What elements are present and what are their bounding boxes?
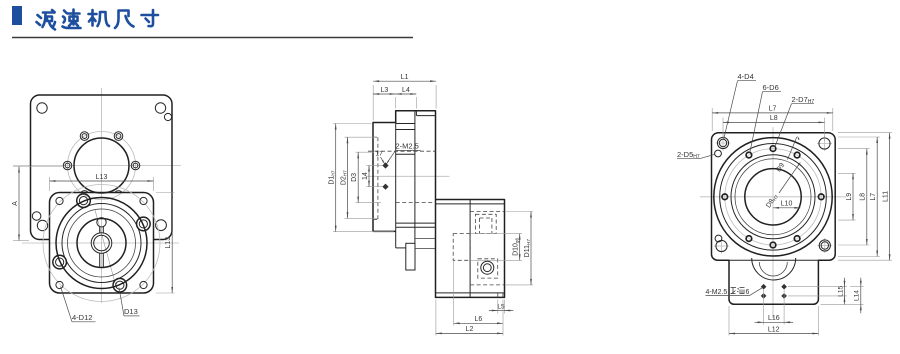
body step line (396, 247, 406, 249)
output housing mid line (469, 200, 471, 298)
M2.5 mounting holes x4 (761, 284, 767, 290)
M2.5 tap mark upper (382, 162, 388, 168)
output boss inner circle (77, 219, 126, 268)
coupling section line 1 (396, 123, 415, 125)
corner hole top-left (716, 142, 731, 144)
motor flange small hole bottom-left (32, 212, 41, 221)
left view vertical centerline (101, 88, 103, 303)
dimension L13 horizontal (49, 177, 51, 191)
M2.5 tap mark lower (382, 184, 388, 190)
D5 locating hole lower-left (715, 235, 722, 242)
motor flange plate outline (31, 95, 173, 240)
svg-text:A: A (12, 201, 19, 206)
svg-text:4-D4: 4-D4 (738, 72, 754, 81)
upper bolt circle (pattern) (68, 132, 136, 200)
left view diagonal reference line (95, 210, 117, 288)
set screw outer circle (481, 261, 494, 274)
label D13 with leader (119, 288, 124, 316)
hidden output bore bottom (470, 284, 504, 286)
svg-text:14: 14 (362, 172, 369, 180)
svg-text:L13: L13 (96, 174, 108, 181)
output housing bottom rim line (436, 292, 505, 294)
right view horizontal centerline (700, 196, 846, 198)
title underline (12, 37, 413, 39)
svg-text:6-D6: 6-D6 (763, 83, 779, 92)
dimension L13 vertical (156, 192, 175, 194)
hidden bore left rect (453, 234, 470, 261)
motor flange hole top-left (37, 103, 47, 113)
svg-text:L6: L6 (474, 316, 482, 323)
svg-text:L12: L12 (768, 326, 780, 333)
label 4-D12 with leader (61, 287, 73, 322)
middle view input axis centerline (366, 175, 450, 177)
hub line 2 (415, 248, 436, 250)
pilot bore circle (745, 169, 801, 225)
dimension L11 (838, 132, 892, 134)
svg-text:D10g6: D10g6 (513, 238, 520, 256)
svg-text:L10: L10 (781, 201, 793, 208)
set screw inner circle (483, 264, 491, 272)
svg-text:6: 6 (746, 289, 750, 296)
dimension D2H7 (345, 136, 377, 138)
flange bottom edge behind tab (729, 259, 818, 261)
D6 tapped holes x6 (818, 194, 824, 200)
upper flange bolt holes x4 (131, 161, 140, 170)
svg-text:L7: L7 (870, 193, 877, 201)
svg-text:L9: L9 (846, 193, 853, 201)
dimension L1 (372, 85, 374, 121)
svg-text:L2: L2 (466, 326, 474, 333)
svg-text:D2H7: D2H7 (340, 170, 347, 185)
input bore column left (395, 123, 397, 248)
dimension D10g6 (471, 233, 522, 235)
svg-text:L11: L11 (882, 191, 889, 202)
hidden output bore top (470, 211, 504, 213)
hidden line input hole lower (396, 202, 436, 204)
svg-text:D3: D3 (351, 173, 358, 182)
svg-text:L7: L7 (769, 106, 777, 113)
hidden bore screw rect (478, 259, 498, 278)
D7 dowel holes x2 (770, 146, 776, 152)
output boss circle 3 (68, 209, 136, 277)
svg-text:L5: L5 (497, 303, 505, 310)
svg-text:4-D12: 4-D12 (72, 313, 92, 322)
dimension L12 (728, 306, 730, 336)
svg-text:L15: L15 (837, 285, 844, 296)
svg-text:4-M2.5: 4-M2.5 (706, 289, 728, 296)
title text 减速机尺寸 (stroke paths) (37, 10, 56, 30)
dimension 14 (367, 165, 383, 167)
svg-text:17: 17 (376, 151, 384, 158)
dimension L3 (395, 97, 397, 109)
keyway circle (97, 218, 106, 227)
dimension L7 right (838, 136, 880, 138)
right view vertical centerline (772, 127, 774, 318)
hidden bore upper rect (475, 214, 496, 233)
dimension L4 (415, 97, 417, 109)
input flange top bar (415, 111, 417, 116)
svg-text:L16: L16 (768, 315, 780, 322)
motor flange hole bottom-left (37, 220, 47, 230)
hub circle 2 (735, 159, 811, 235)
corner hole bottom-right (817, 245, 832, 247)
output housing outline (436, 200, 505, 298)
dimension L15 (788, 286, 847, 288)
dimension L6 (453, 261, 455, 326)
svg-text:L14: L14 (854, 290, 861, 301)
gearbox body outline (side view) (373, 111, 436, 232)
output boss outer circle (56, 198, 147, 289)
hub circle (731, 155, 815, 239)
output bore inner (94, 235, 110, 251)
bottom dome inner arc (759, 262, 787, 276)
bolt circle (gray) (725, 149, 821, 245)
dimension L9 (838, 172, 856, 174)
dimension D11H7 (506, 211, 534, 213)
D13 mounting holes x4 (137, 217, 151, 231)
svg-text:D8H7: D8H7 (765, 193, 779, 210)
output bore outer (91, 233, 112, 254)
dimension L14 (850, 286, 864, 288)
keyway neck (99, 227, 101, 234)
left view lower flange centerline (22, 242, 179, 244)
svg-text:L1: L1 (401, 74, 409, 81)
dimension L16 (763, 289, 765, 325)
gearbox flange square outline (50, 193, 154, 294)
D12 corner holes x4 (56, 197, 63, 204)
dimension L5 (497, 300, 499, 314)
title bullet (12, 6, 22, 25)
dimension D3 (356, 151, 375, 153)
body band line 2 (396, 226, 436, 228)
motor flange hole top-right (155, 103, 165, 113)
svg-text:L3: L3 (381, 87, 389, 94)
gearbox flange outline (rear view) (712, 133, 836, 305)
svg-text:L8: L8 (770, 115, 778, 122)
corner hole top-right (817, 143, 832, 145)
left view upper boss centerline (13, 165, 181, 167)
svg-text:L13: L13 (165, 237, 172, 249)
motor flange hole bottom-right (156, 220, 167, 231)
svg-text:L4: L4 (402, 87, 410, 94)
flange circle 2 (720, 144, 827, 251)
coupling section line 2 (396, 129, 415, 131)
svg-text:D1h7: D1h7 (329, 170, 336, 185)
body band line 1 (396, 222, 436, 224)
output rim vertical 1 (497, 293, 499, 298)
dimension A (13, 166, 62, 168)
output boss circle 2 (62, 204, 141, 283)
corner-hole circle (gray) (43, 185, 160, 302)
hub line 1 (415, 238, 436, 240)
output rim vertical 2 (502, 293, 504, 298)
dimension L10 (773, 207, 800, 209)
svg-text:2-M2.5: 2-M2.5 (396, 142, 419, 151)
flange outer circle (714, 138, 832, 256)
dimension L8 top (722, 118, 724, 141)
D5 locating hole upper-left (715, 150, 722, 157)
bottom dome outer arc (752, 258, 796, 280)
coupling section line 3 (block bottom) (396, 153, 415, 155)
hidden line input hole upper (368, 150, 436, 152)
input bore column right (414, 111, 416, 244)
dimension L7 top (711, 108, 713, 131)
svg-text:D11H7: D11H7 (524, 239, 531, 258)
hidden input pilot bore (377, 137, 379, 219)
lower bearing block (406, 243, 415, 270)
dimension L8 right (838, 148, 870, 150)
motor flange small hole top-right (164, 113, 171, 120)
svg-text:L8: L8 (860, 193, 867, 201)
keyway slot (99, 253, 101, 268)
dimension L2 (435, 300, 437, 336)
corner hole bottom-left (714, 245, 729, 247)
dimension D1h7 (333, 123, 372, 125)
output housing top rim line (436, 203, 505, 205)
svg-text:D13: D13 (124, 307, 138, 316)
upper flange bolt holes x2 (hidden behind gearbox) (80, 191, 123, 200)
upper boss circle (74, 138, 129, 193)
